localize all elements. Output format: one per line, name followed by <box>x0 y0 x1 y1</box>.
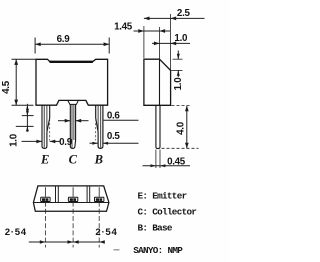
svg-text:B: Base: B: Base <box>138 223 173 234</box>
svg-text:2·54: 2·54 <box>5 227 27 238</box>
dimension 0.6 label and leader line <box>104 119 139 121</box>
svg-text:1.0: 1.0 <box>174 33 188 44</box>
dimension 2.54 line <box>29 241 102 243</box>
svg-text:4.0: 4.0 <box>175 121 186 135</box>
dimension 0.5 line right segment with arrow <box>103 142 139 144</box>
bottom view pin C cross-section <box>68 197 77 201</box>
svg-text:0.45: 0.45 <box>167 156 186 167</box>
front view package body outline <box>36 59 108 105</box>
collector lead inner lines <box>71 104 73 147</box>
bottom view pin B centerline <box>98 187 100 197</box>
bottom view pin E centerline <box>44 187 46 197</box>
dimension 1.45 line and arrows <box>134 30 171 32</box>
bottom view pin B cross-section <box>95 197 104 201</box>
bottom view outline <box>33 186 109 211</box>
base lead inner lines <box>100 105 102 147</box>
dimension 0.5 line left segment with arrow <box>90 142 98 144</box>
bottom view divider lines right pair <box>86 186 88 203</box>
dimension 4.5 line and arrows <box>15 59 17 105</box>
dimension 6.9 line and arrows <box>35 43 109 45</box>
dimension 6.9 extension lines <box>34 38 36 54</box>
dimension 2.5 line and arrows <box>144 17 205 19</box>
dimension 2.5 extension line <box>170 14 172 70</box>
svg-text:1.45: 1.45 <box>114 21 133 32</box>
side view lead <box>156 105 160 148</box>
svg-text:C: Collector: C: Collector <box>138 207 197 218</box>
side view body outline <box>144 59 171 105</box>
bottom view pin E cross-section <box>41 197 50 201</box>
dimension 2.54 arrows <box>40 240 46 244</box>
dimension 1.45 extension line left <box>143 26 145 58</box>
dimension 1.0 left arrows <box>26 105 29 110</box>
dimension 0.6 line right segment with arrow <box>76 120 89 122</box>
svg-text:C: C <box>69 153 78 167</box>
svg-text:0.9: 0.9 <box>59 137 73 148</box>
svg-text:0.5: 0.5 <box>107 131 121 142</box>
dimension 1.0 top extension line <box>159 27 161 59</box>
dimension 1.0 left vertical line <box>26 104 28 132</box>
dimension 0.9 line left segment with arrow <box>22 140 43 142</box>
dimension 0.6 line left segment with arrow <box>58 120 70 122</box>
svg-text:B: B <box>94 153 103 167</box>
collector lead C outline <box>70 104 75 148</box>
bottom view chamfer edge line <box>33 202 109 204</box>
svg-text:6.9: 6.9 <box>57 34 71 45</box>
dimension 4.5 extension lines <box>12 58 36 60</box>
svg-text:SANYO: NMP: SANYO: NMP <box>133 245 183 256</box>
emitter lead inner lines <box>43 105 45 147</box>
svg-text:2·54: 2·54 <box>95 227 117 238</box>
dimension 1.0 top line and arrows <box>152 42 190 44</box>
bottom view pin C centerline <box>72 187 74 197</box>
dimension 1.0 left ticks <box>22 115 34 117</box>
svg-text:2.5: 2.5 <box>177 8 191 19</box>
side view internal step edge <box>159 59 161 105</box>
dimension 4.0 line and arrows <box>186 106 188 149</box>
dimension 0.45 line and arrows <box>143 165 191 167</box>
base lead hidden edge dashed <box>95 119 97 141</box>
svg-text:E: Emitter: E: Emitter <box>138 190 187 201</box>
dimension 1.0 right extension lines <box>173 58 183 60</box>
dimension 1.0 right line and arrows <box>177 51 179 60</box>
svg-text:E: E <box>40 153 49 167</box>
emitter lead E outline <box>42 105 50 148</box>
dimension 0.9 line right segment with arrow <box>50 140 60 142</box>
dimension 0.45 extension lines <box>155 150 157 169</box>
svg-text:0.6: 0.6 <box>107 110 121 121</box>
scan speck <box>114 249 120 251</box>
svg-text:1.0: 1.0 <box>173 77 184 91</box>
svg-text:4.5: 4.5 <box>1 80 12 94</box>
svg-text:1.0: 1.0 <box>8 133 19 147</box>
base lead B outline <box>96 105 103 148</box>
bottom view divider lines left pair <box>55 186 57 203</box>
emitter lead hidden edge dashed <box>49 119 51 141</box>
front view collector boss trapezoid <box>68 100 79 104</box>
dimension 4.0 extension lines dashed <box>172 105 191 107</box>
front view top chamfer thick edge <box>50 61 93 63</box>
